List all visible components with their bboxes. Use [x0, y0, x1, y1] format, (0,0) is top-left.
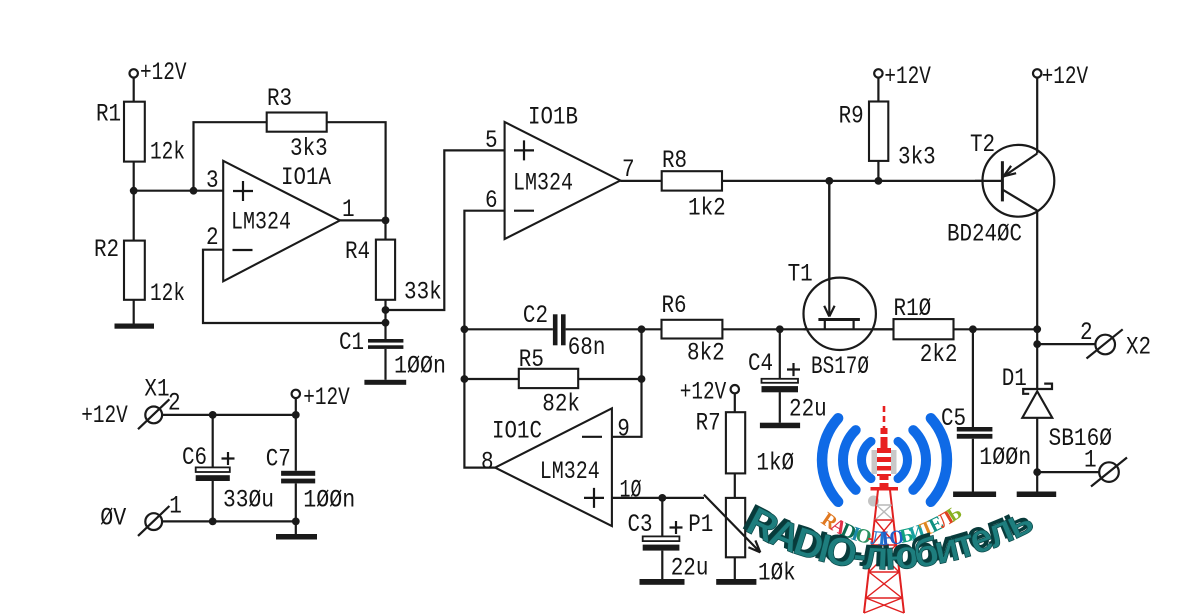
svg-text:D1: D1	[1002, 364, 1027, 393]
svg-text:33Øu: 33Øu	[223, 486, 274, 515]
svg-text:+12V: +12V	[140, 58, 187, 87]
svg-text:2: 2	[168, 389, 181, 418]
svg-text:2: 2	[1080, 318, 1093, 347]
svg-text:2k2: 2k2	[920, 340, 958, 369]
svg-text:1: 1	[169, 492, 182, 521]
svg-text:R3: R3	[267, 84, 292, 113]
svg-text:T1: T1	[788, 260, 813, 289]
svg-text:R1: R1	[96, 100, 121, 129]
svg-text:SB16Ø: SB16Ø	[1049, 424, 1113, 453]
svg-text:1ØØn: 1ØØn	[394, 352, 446, 381]
svg-text:IO1C: IO1C	[492, 417, 542, 446]
svg-text:1: 1	[342, 195, 355, 224]
svg-text:1kØ: 1kØ	[756, 449, 794, 478]
svg-text:X2: X2	[1126, 333, 1151, 362]
svg-text:R5: R5	[519, 345, 544, 374]
svg-text:3k3: 3k3	[898, 143, 936, 172]
svg-text:C7: C7	[266, 445, 291, 474]
svg-text:ØV: ØV	[100, 504, 126, 533]
svg-text:C2: C2	[523, 301, 548, 330]
svg-text:R9: R9	[839, 102, 864, 131]
svg-text:33k: 33k	[404, 278, 442, 307]
svg-text:1ØØn: 1ØØn	[979, 443, 1031, 472]
svg-text:1Ø: 1Ø	[620, 476, 642, 505]
svg-text:C3: C3	[628, 510, 653, 539]
svg-text:C1: C1	[339, 328, 364, 357]
svg-text:R4: R4	[345, 237, 370, 266]
svg-text:1Øk: 1Øk	[758, 559, 796, 588]
svg-text:12k: 12k	[150, 138, 185, 167]
svg-text:R6: R6	[662, 291, 687, 320]
svg-text:2: 2	[206, 223, 219, 252]
svg-text:R8: R8	[662, 146, 687, 175]
svg-text:3: 3	[206, 166, 219, 195]
svg-text:T2: T2	[970, 130, 995, 159]
svg-text:82k: 82k	[542, 390, 580, 419]
svg-text:1: 1	[1084, 446, 1097, 475]
svg-text:8: 8	[481, 448, 494, 477]
svg-text:P1: P1	[688, 510, 713, 539]
svg-text:+12V: +12V	[884, 62, 931, 91]
svg-text:C4: C4	[748, 349, 773, 378]
svg-text:BD24ØC: BD24ØC	[947, 220, 1022, 249]
svg-text:IO1A: IO1A	[281, 163, 331, 192]
svg-text:LM324: LM324	[231, 208, 291, 237]
svg-text:22u: 22u	[789, 395, 827, 424]
svg-text:6: 6	[485, 186, 498, 215]
svg-text:X1: X1	[144, 375, 169, 404]
svg-text:+12V: +12V	[303, 383, 350, 412]
svg-text:+12V: +12V	[680, 378, 727, 407]
svg-text:+12V: +12V	[1042, 62, 1089, 91]
svg-text:LM324: LM324	[540, 457, 600, 486]
svg-text:1k2: 1k2	[688, 194, 726, 223]
svg-text:3k3: 3k3	[290, 134, 328, 163]
svg-text:12k: 12k	[150, 279, 185, 308]
svg-text:9: 9	[617, 415, 630, 444]
svg-text:R7: R7	[696, 409, 721, 438]
svg-text:+12V: +12V	[81, 401, 128, 430]
svg-text:7: 7	[622, 155, 635, 184]
svg-text:68n: 68n	[568, 333, 606, 362]
svg-text:LM324: LM324	[513, 169, 573, 198]
svg-text:R2: R2	[94, 235, 119, 264]
svg-text:R1Ø: R1Ø	[894, 294, 932, 323]
svg-text:8k2: 8k2	[687, 339, 725, 368]
svg-text:22u: 22u	[671, 554, 709, 583]
svg-text:BS17Ø: BS17Ø	[811, 352, 869, 381]
svg-text:1ØØn: 1ØØn	[303, 486, 355, 515]
svg-text:5: 5	[485, 126, 498, 155]
svg-text:IO1B: IO1B	[528, 103, 578, 132]
svg-text:C5: C5	[941, 404, 966, 433]
svg-text:C6: C6	[182, 443, 207, 472]
